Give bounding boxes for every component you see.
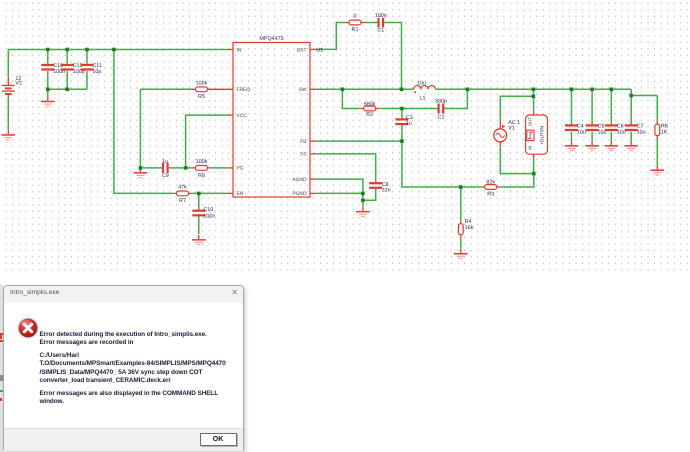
wire SS pin stub (310, 153, 315, 155)
wire FB pin stub (310, 140, 315, 142)
title bar (4, 286, 243, 303)
ground below R8 (651, 165, 665, 175)
junction VIN-C11 (85, 48, 89, 52)
capacitor C13 (41, 64, 54, 71)
capacitor C4 (565, 124, 578, 131)
wire C6 bottom lead (610, 132, 612, 141)
junction VOUT/C4 (570, 88, 574, 92)
svg-text:IN: IN (237, 47, 242, 53)
wire C10 top lead (198, 193, 200, 209)
junction SW/C1 (400, 88, 404, 92)
junction VOUT/C5 (590, 88, 594, 92)
wire C6 top lead (610, 89, 612, 124)
wire R3 to V1 node (500, 174, 534, 187)
wire FB to R3 (402, 141, 481, 187)
svg-text:10p: 10p (92, 69, 101, 75)
svg-text:C1: C1 (377, 28, 384, 34)
capacitor C7 (625, 124, 638, 131)
wire VOUT to sense node (532, 89, 534, 96)
wire V1 negative wire (500, 147, 534, 174)
wire V1 positive wire (500, 96, 533, 120)
svg-text:C7: C7 (637, 124, 644, 130)
ground below R4 (454, 249, 468, 259)
capacitor C10 (192, 210, 205, 217)
wire VCC wire (186, 115, 228, 168)
wire port IN stub (533, 154, 535, 159)
junction C7/R8 (629, 94, 633, 98)
wire ground to C9 (140, 167, 162, 169)
wire C2 to VOUT (444, 89, 467, 108)
wire R6 to PG (211, 167, 228, 169)
wire C13 top stub (47, 50, 49, 64)
AC source V1 (494, 125, 507, 142)
wire BST pin stub (310, 48, 315, 50)
wire C12 bottom stub (66, 71, 68, 89)
wire IN pin stub (228, 49, 233, 51)
junction SW/R2 (341, 88, 345, 92)
wire R8 bottom lead (656, 139, 658, 166)
svg-text:PG: PG (237, 166, 244, 172)
svg-text:330p: 330p (435, 99, 447, 105)
wire PGND wire (315, 192, 363, 194)
capacitor C6 (605, 124, 618, 131)
ground below C6 (605, 141, 619, 151)
junction VIN-EN (112, 48, 116, 52)
junction VIN-C13 (46, 48, 50, 52)
ground below R5/C9 node (134, 168, 148, 178)
svg-text:EN: EN (237, 191, 244, 197)
junction R2/C2/C3 (400, 107, 404, 111)
capacitor C12 (61, 64, 74, 71)
wire port IN wire (533, 159, 535, 174)
junction VIN-C12 (65, 48, 69, 52)
wire BST wire (315, 23, 345, 50)
wire port OUT wire (533, 96, 535, 110)
svg-text:FREQ: FREQ (237, 87, 251, 93)
wire R8 top lead (656, 96, 658, 122)
svg-text:V2: V2 (15, 81, 22, 87)
wire C12 top stub (66, 50, 68, 64)
wire C4 bottom lead (571, 132, 573, 141)
svg-text:100k: 100k (196, 80, 208, 86)
wire C7 top lead (630, 96, 632, 125)
wire R2 to C2 (380, 108, 438, 110)
svg-text:IN: IN (528, 145, 533, 149)
svg-text:R1: R1 (352, 27, 359, 33)
wire R4 top lead (460, 187, 462, 220)
junction V1/port/VOUT (532, 95, 536, 99)
junction C8/gnd node (361, 199, 365, 203)
svg-text:R7: R7 (179, 198, 186, 204)
junction VOUT/C6 (610, 88, 614, 92)
junction VOUT/C2 (466, 88, 470, 92)
svg-text:R6: R6 (198, 173, 205, 179)
svg-text:1u: 1u (406, 121, 412, 127)
capacitor C5 (586, 124, 599, 131)
ground below input caps (41, 97, 55, 107)
wire ground stub (47, 89, 49, 96)
resistor R1 (346, 20, 365, 25)
svg-text:R2: R2 (366, 112, 373, 118)
wire C3 bottom lead (401, 125, 403, 141)
schematic canvas background (0, 0, 690, 273)
wire V2 negative lead (7, 97, 9, 130)
svg-text:C11: C11 (92, 63, 102, 69)
wire FB wire (315, 140, 402, 142)
wire C5 top lead (591, 89, 593, 124)
wire port OUT stub (533, 110, 535, 115)
ground below C5 (585, 141, 599, 151)
svg-text:1u: 1u (162, 159, 168, 165)
window strip behind dialog (left edge) (0, 285, 3, 452)
resistor R7 (173, 191, 192, 196)
inductor L1 (414, 86, 436, 94)
wire VIN rail (8, 50, 228, 77)
junction capgnd-1 (46, 88, 50, 92)
wire VIN to EN (114, 50, 173, 194)
message text (40, 331, 236, 407)
wire AGND wire (315, 179, 363, 200)
wire V1 bottom stub (499, 142, 501, 147)
svg-text:L1: L1 (420, 95, 426, 101)
junction VCC/C9/R6 (184, 166, 188, 170)
wire C11 top stub (86, 50, 88, 64)
wire R1 to C1 (365, 22, 378, 24)
wire input cap ground rail (48, 88, 87, 90)
junction EN/C10 (197, 192, 201, 196)
svg-text:100k: 100k (196, 159, 208, 165)
svg-text:U1: U1 (316, 47, 323, 53)
svg-text:MPQ4470: MPQ4470 (259, 36, 283, 42)
junction FB node (400, 139, 404, 143)
svg-text:+OUT/IN: +OUT/IN (539, 125, 545, 145)
wire VOUT rail (436, 88, 632, 90)
voltage source V2 (battery) (2, 77, 15, 97)
ground below C10 (192, 235, 206, 245)
svg-text:V1: V1 (508, 126, 515, 132)
op-amp U1 MPQ4470 IC body (233, 43, 310, 198)
wire VCC pin stub (228, 114, 233, 116)
resistor R5 (192, 87, 211, 92)
svg-text:OUT: OUT (528, 117, 533, 126)
svg-text:PGND: PGND (292, 191, 307, 197)
svg-text:100n: 100n (375, 13, 387, 19)
svg-text:680k: 680k (364, 102, 376, 108)
capacitor C8 (369, 182, 382, 189)
OK button (200, 433, 237, 446)
svg-text:10u: 10u (417, 81, 426, 87)
svg-text:R5: R5 (198, 94, 205, 100)
error icon (17, 317, 39, 339)
capacitor C1 (377, 18, 384, 28)
svg-text:SS: SS (300, 152, 307, 158)
wire C13 bottom stub (47, 71, 49, 89)
resistor R8 (655, 121, 660, 140)
wire rail end drop (630, 89, 632, 95)
wire C7 bottom lead (630, 132, 632, 141)
svg-text:C6: C6 (617, 124, 624, 130)
capacitor fragment at screen edge (0, 333, 4, 335)
svg-text:SW: SW (299, 87, 307, 93)
resistor R4 (458, 220, 463, 238)
junction R3/R4 (459, 185, 463, 189)
svg-text:BST: BST (297, 47, 307, 53)
junction R5/C9/gnd (139, 166, 143, 170)
wire SS to C8 (315, 154, 376, 182)
ground below V2 (2, 130, 16, 140)
svg-text:C2: C2 (438, 115, 445, 121)
wire fragment at screen edge (0, 390, 3, 392)
footer bar (4, 428, 243, 451)
wire SW pin stub (310, 88, 315, 90)
wire C9 to R6 (169, 167, 193, 169)
wire C5 bottom lead (591, 132, 593, 141)
wire FREQ lead (208, 88, 234, 90)
svg-text:C5: C5 (598, 124, 605, 130)
svg-text:C4: C4 (577, 124, 584, 130)
svg-text:R3: R3 (487, 192, 494, 198)
resistor R3 (481, 185, 500, 190)
svg-text:100n: 100n (203, 213, 215, 219)
resistor R2 (360, 106, 379, 111)
svg-text:C9: C9 (162, 173, 169, 179)
wire C3 top lead (401, 109, 403, 119)
svg-text:16k: 16k (465, 225, 474, 231)
svg-text:AGND: AGND (292, 177, 307, 183)
wire AGND pin stub (310, 178, 315, 180)
wire V1 top stub (499, 121, 501, 129)
svg-text:0: 0 (354, 14, 357, 20)
capacitor C3 (395, 118, 408, 125)
junction V1/port/R3 (532, 172, 536, 176)
wire PGND pin stub (310, 192, 315, 194)
svg-text:10u: 10u (577, 130, 586, 136)
wire SW wire (315, 88, 414, 90)
svg-text:C10: C10 (203, 207, 213, 213)
capacitor C11 (81, 64, 94, 71)
wire C4 top lead (571, 89, 573, 124)
wire EN pin stub (228, 192, 233, 194)
wire R5 to ground drop (139, 89, 141, 168)
wire ground node stub (362, 200, 364, 206)
capacitor C9 (162, 163, 169, 173)
svg-text:R4: R4 (465, 219, 472, 225)
probe port OUT/IN (526, 115, 548, 154)
svg-text:VCC: VCC (237, 113, 248, 119)
wire PG pin stub (228, 167, 233, 169)
resistor R6 (192, 166, 211, 171)
capacitor C2 (438, 104, 445, 114)
wire C8 to ground node (363, 189, 376, 201)
svg-text:1K: 1K (661, 130, 668, 136)
svg-text:33n: 33n (382, 187, 391, 193)
svg-text:10u: 10u (637, 130, 646, 136)
junction VOUT/sense (532, 88, 536, 92)
svg-text:FB: FB (300, 139, 306, 145)
ground below C7 (624, 141, 638, 151)
junction PGND node (361, 192, 365, 196)
svg-text:R8: R8 (661, 124, 668, 130)
wire R4 bottom lead (460, 238, 462, 249)
wire SW to R2 (342, 89, 359, 108)
svg-text:10u: 10u (617, 130, 626, 136)
svg-text:82k: 82k (486, 179, 495, 185)
ground AGND/PGND (356, 207, 370, 217)
ground below C4 (565, 141, 579, 151)
wire FREQ wire (140, 88, 192, 90)
wire to R8 (631, 95, 657, 97)
wire C1 to SW (384, 23, 401, 90)
wire EN wire (192, 192, 228, 194)
wire C11 bottom stub (86, 71, 88, 89)
junction capgnd-2 (65, 88, 69, 92)
wire C10 bottom lead (198, 216, 200, 234)
error dialog Intro_simplis.exe (3, 285, 244, 452)
svg-text:47k: 47k (178, 185, 187, 191)
